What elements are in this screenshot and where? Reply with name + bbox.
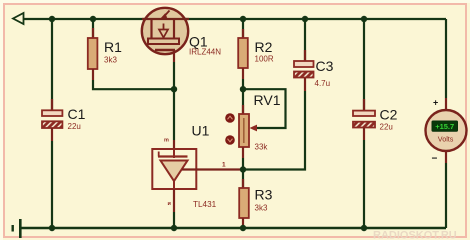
wire U1 anode to ground xyxy=(173,189,175,212)
node U1 anode bottom xyxy=(171,225,177,231)
svg-text:C3: C3 xyxy=(316,58,334,74)
svg-text:m: m xyxy=(164,138,169,144)
wire REF to C3 xyxy=(243,91,305,170)
svg-text:Volts: Volts xyxy=(438,135,454,144)
svg-text:3k3: 3k3 xyxy=(104,56,117,65)
node R3 bottom xyxy=(240,225,246,231)
svg-text:−: − xyxy=(432,154,438,165)
svg-text:R2: R2 xyxy=(255,39,273,55)
pin 1 REF wire xyxy=(182,168,243,170)
node C2 top xyxy=(361,16,367,22)
node R2 top xyxy=(240,16,246,22)
wire meter drop xyxy=(445,19,447,98)
wire wiper loop xyxy=(243,89,286,128)
svg-text:3k3: 3k3 xyxy=(255,204,268,213)
svg-text:4.7u: 4.7u xyxy=(315,79,331,88)
potentiometer RV1 xyxy=(239,89,249,169)
svg-text:R3: R3 xyxy=(255,187,273,203)
capacitor C3 xyxy=(294,19,314,91)
node C3 top junction xyxy=(302,16,308,22)
node C1 top xyxy=(49,16,55,22)
svg-text:+15.7: +15.7 xyxy=(435,122,454,131)
ground xyxy=(13,219,21,238)
node gate junction xyxy=(171,86,177,92)
resistor R2 xyxy=(238,19,248,89)
svg-text:R1: R1 xyxy=(104,39,122,55)
input terminal arrow xyxy=(13,13,24,24)
node C2 bottom xyxy=(361,225,367,231)
wire R1 to gate xyxy=(93,80,174,89)
resistor R1 xyxy=(88,19,98,80)
RV1 increment button xyxy=(225,113,235,123)
svg-text:+: + xyxy=(433,98,438,108)
svg-text:TL431: TL431 xyxy=(193,200,217,209)
wiper arrowhead xyxy=(250,125,258,132)
svg-text:C1: C1 xyxy=(68,106,86,122)
wire gate vertical xyxy=(173,62,175,140)
node REF junction xyxy=(240,166,246,172)
wire bottom rail xyxy=(20,227,446,229)
svg-text:RADIOSKOT.RU: RADIOSKOT.RU xyxy=(373,230,457,240)
svg-text:22u: 22u xyxy=(380,123,393,132)
node C1 bottom xyxy=(49,225,55,231)
wire top rail xyxy=(23,18,446,20)
capacitor C2 xyxy=(353,19,375,228)
transistor Q1 xyxy=(142,8,189,62)
node R2 bottom junction xyxy=(240,86,246,92)
capacitor C1 xyxy=(42,19,62,228)
RV1 decrement button xyxy=(225,135,235,145)
svg-text:и: и xyxy=(168,201,171,207)
svg-text:1: 1 xyxy=(222,162,226,169)
voltmeter U2 xyxy=(426,110,467,151)
svg-text:U1: U1 xyxy=(192,123,210,139)
svg-text:100R: 100R xyxy=(255,55,274,64)
svg-text:C2: C2 xyxy=(380,107,398,123)
wire meter to ground rail xyxy=(445,151,447,163)
svg-text:IRLZ44N: IRLZ44N xyxy=(189,48,221,57)
svg-text:22u: 22u xyxy=(68,122,81,131)
node R1 top xyxy=(90,16,96,22)
op-amp U1 TL431 xyxy=(152,149,196,189)
resistor R3 xyxy=(239,170,249,229)
svg-text:33k: 33k xyxy=(255,143,269,152)
svg-text:RV1: RV1 xyxy=(254,92,281,108)
